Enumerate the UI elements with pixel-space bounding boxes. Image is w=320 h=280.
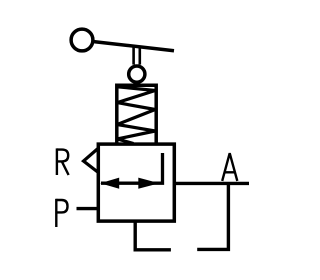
- label R: [57, 148, 69, 175]
- label P: [56, 199, 67, 227]
- lever arm: [94, 42, 174, 51]
- flow-path arrow shaft: [101, 153, 163, 183]
- label A: [222, 153, 237, 181]
- roller: [129, 66, 145, 82]
- pivot legs: [134, 46, 140, 65]
- spring box: [117, 85, 156, 144]
- pilot line down from body: [135, 221, 171, 250]
- pilot line to A: [197, 184, 228, 250]
- vent arrowhead R: [84, 148, 99, 173]
- arrowhead left: [100, 178, 119, 189]
- hand lever knob (ball): [71, 29, 93, 51]
- arrowhead right: [138, 178, 159, 189]
- A port line: [175, 182, 250, 185]
- valve body: [98, 144, 174, 221]
- spring zigzag: [117, 87, 155, 144]
- P port line: [77, 207, 101, 210]
